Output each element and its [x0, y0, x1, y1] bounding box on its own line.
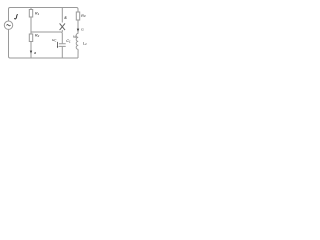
svg-text:L1: L1: [83, 41, 87, 45]
svg-text:uL: uL: [73, 35, 77, 39]
svg-text:S: S: [64, 16, 67, 20]
svg-text:i1: i1: [81, 27, 84, 31]
svg-text:a: a: [34, 51, 36, 55]
svg-text:C1: C1: [66, 39, 71, 43]
svg-text:R2: R2: [35, 33, 40, 37]
svg-text:R1: R1: [35, 11, 40, 15]
svg-text:R3: R3: [81, 14, 86, 18]
svg-text:uC: uC: [52, 38, 57, 42]
